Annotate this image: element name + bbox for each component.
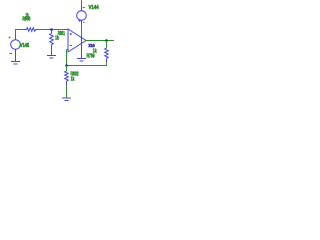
resistor R802 <box>65 71 69 86</box>
svg-text:1k: 1k <box>71 76 75 82</box>
wire: V145 to ground <box>15 54 17 62</box>
op-amp X10 <box>67 29 87 52</box>
ground (V145) <box>11 62 20 65</box>
wire: op-amp minus input down to feedback rail <box>66 50 68 66</box>
node junction dot at output/R799 <box>105 39 108 42</box>
node junction dot at feedback/R802 <box>65 64 68 67</box>
voltage source V145 <box>9 36 21 54</box>
svg-text:1k: 1k <box>55 36 59 42</box>
wire: R802 to ground <box>66 86 68 98</box>
wire: V145 top to R800 <box>16 30 25 37</box>
wire: feedback rail <box>67 62 107 65</box>
wire: output node down to R799 <box>106 41 108 49</box>
resistor R801 <box>50 34 54 49</box>
wire: top edge to V144 <box>81 0 83 6</box>
svg-text:V144: V144 <box>89 5 99 11</box>
op-amp ground pin through body to ground <box>81 37 83 59</box>
wire: R800 to op-amp + input <box>39 29 69 31</box>
svg-text:R799: R799 <box>87 53 95 59</box>
svg-text:R800: R800 <box>22 17 30 23</box>
wire: node to R801 <box>51 30 53 34</box>
voltage source V144 <box>77 6 87 25</box>
wire: op-amp output <box>86 40 114 42</box>
wire: node to R802 <box>66 66 68 72</box>
wire: R801 to ground <box>51 48 53 56</box>
resistor R799 <box>105 48 109 62</box>
ground (R802) <box>62 98 71 101</box>
ground (V144) <box>77 59 86 62</box>
node junction dot at R801 top <box>50 28 53 31</box>
ground (R801) <box>47 56 56 59</box>
resistor R800 <box>24 28 39 32</box>
svg-text:V145: V145 <box>20 43 30 49</box>
wire: V144 down to op-amp top edge <box>81 24 83 37</box>
